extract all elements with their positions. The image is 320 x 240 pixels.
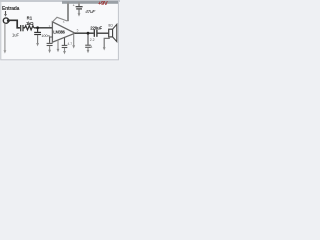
wire jack to R1 <box>10 20 20 28</box>
pin2 wire <box>50 37 53 43</box>
capacitor C3 pin7 <box>64 37 66 45</box>
ground apex <box>73 34 75 45</box>
wire R1 to pin3 <box>34 27 53 29</box>
input jack J1 <box>3 18 8 23</box>
svg-text:5: 5 <box>77 28 79 32</box>
schematic background <box>0 0 120 62</box>
op-amp U1 LM386 <box>52 22 75 42</box>
wire C5 to speaker <box>97 32 109 34</box>
svg-text:R1: R1 <box>27 15 33 20</box>
top frame edge <box>0 0 120 2</box>
svg-text:+9V: +9V <box>98 1 108 7</box>
svg-text:1uF: 1uF <box>12 32 20 37</box>
capacitor C7 input <box>20 25 22 31</box>
svg-text:Entrada: Entrada <box>2 6 20 12</box>
resistor R1 <box>25 26 34 30</box>
ground C2 <box>49 46 51 50</box>
capacitor C1 <box>37 29 39 32</box>
ground C1 <box>37 35 39 44</box>
svg-text:220uF: 220uF <box>90 25 102 30</box>
node B junction <box>87 32 90 35</box>
wire output <box>75 32 94 34</box>
svg-text:100n: 100n <box>41 34 49 38</box>
ground speaker <box>104 37 109 48</box>
capacitor C4 zobel <box>87 35 89 45</box>
ground C4 <box>87 48 89 51</box>
svg-text:2.2: 2.2 <box>90 38 95 42</box>
ground jack <box>4 23 6 50</box>
node A junction <box>36 26 39 29</box>
svg-text:47uF: 47uF <box>85 9 96 14</box>
input arrow <box>5 11 7 14</box>
svg-text:LM386: LM386 <box>53 30 65 35</box>
capacitor C2 <box>47 42 53 44</box>
ground C3 <box>64 48 66 51</box>
svg-text:4.7: 4.7 <box>68 42 73 46</box>
ground C6 <box>78 9 80 13</box>
pin 6 top stub <box>52 17 67 22</box>
wire pin6 to rail <box>67 3 69 21</box>
svg-text:1kΩ: 1kΩ <box>26 21 34 26</box>
capacitor C6 47uF supply <box>78 3 80 6</box>
wire C7 to R1 <box>23 27 25 29</box>
border frame <box>1 1 119 60</box>
ground pin4 <box>57 40 59 49</box>
svg-text:4: 4 <box>91 45 93 49</box>
speaker LS1 <box>109 29 113 37</box>
+9V supply rail <box>62 1 118 4</box>
svg-text:8Ω: 8Ω <box>108 24 113 28</box>
